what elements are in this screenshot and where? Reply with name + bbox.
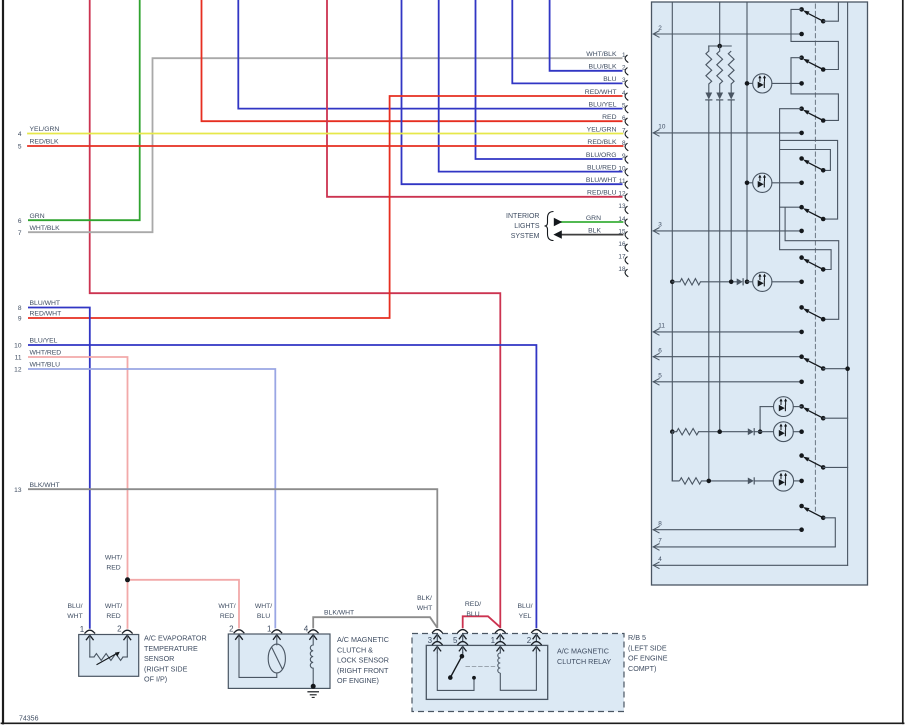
svg-text:BLK: BLK	[588, 227, 601, 234]
dashed mechanical link line	[814, 4, 816, 511]
ground symbol	[308, 691, 318, 693]
connector pin 9 hook	[625, 156, 628, 164]
wire BLK interior lights (pin 15)	[560, 234, 623, 236]
junction WHT/RED	[125, 577, 130, 582]
svg-text:YEL/GRN: YEL/GRN	[587, 127, 617, 134]
svg-text:13: 13	[14, 487, 22, 494]
lock sensor pin 4 connector	[308, 630, 319, 633]
lock sensor coil to ground	[312, 668, 314, 685]
svg-text:BLU/RED: BLU/RED	[587, 164, 617, 171]
lock sensor wire pin2 to oval	[239, 673, 277, 677]
connector pin 10 hook	[625, 168, 628, 176]
svg-text:OF I/P): OF I/P)	[144, 675, 167, 684]
connector pin 13 hook	[625, 206, 628, 214]
svg-text:2: 2	[117, 625, 122, 634]
svg-text:2: 2	[229, 624, 234, 633]
panel pin 7 wire	[653, 546, 835, 548]
svg-text:WHT/BLU: WHT/BLU	[30, 362, 61, 369]
resistor R5 row	[670, 429, 675, 434]
switch SW5 outer bracket to SW7 arm	[785, 207, 839, 319]
svg-text:LOCK SENSOR: LOCK SENSOR	[337, 656, 389, 665]
svg-text:4: 4	[658, 556, 662, 563]
switch SW2	[799, 55, 804, 60]
wire BLU/BLK (to pin 2)	[550, 0, 623, 71]
svg-text:5: 5	[18, 144, 22, 151]
switch SW1	[799, 7, 804, 12]
lock sensor pin 1 connector	[271, 630, 282, 633]
svg-text:10: 10	[14, 343, 22, 350]
switch SW2 bottom contact to LED	[772, 82, 802, 84]
svg-text:6: 6	[658, 348, 662, 355]
svg-text:TEMPERATURE: TEMPERATURE	[144, 644, 198, 653]
svg-text:BLU: BLU	[603, 76, 616, 83]
chain tie to SW5 top contact	[780, 206, 802, 208]
svg-text:7: 7	[18, 230, 22, 237]
switch SW7	[799, 305, 804, 310]
svg-text:1: 1	[267, 624, 272, 633]
resistor R2 (panel)	[717, 51, 723, 84]
svg-text:BLU/BLK: BLU/BLK	[589, 64, 617, 71]
svg-text:18: 18	[618, 266, 626, 273]
svg-text:11: 11	[658, 323, 665, 330]
svg-text:YEL: YEL	[519, 613, 532, 620]
svg-text:RED/BLU: RED/BLU	[587, 190, 617, 197]
switch SW3	[799, 106, 804, 111]
panel pin 4 wire	[653, 564, 847, 566]
switch SW6	[799, 255, 804, 260]
svg-text:SENSOR: SENSOR	[144, 654, 174, 663]
diode D3	[728, 93, 735, 100]
svg-text:WHT/BLK: WHT/BLK	[30, 225, 61, 232]
relay switch arm	[450, 656, 462, 677]
switch SW1 arm output	[823, 2, 838, 21]
LED PH5 output	[793, 431, 801, 433]
LED optocoupler PH5	[774, 422, 794, 442]
switch SW11	[799, 504, 804, 509]
switch SW11 arm output to pin7	[823, 518, 835, 547]
svg-text:2: 2	[622, 65, 626, 72]
wire GRN (left row 6)	[28, 0, 140, 220]
svg-text:5: 5	[453, 636, 458, 645]
wire RED/WHT (row 9 to pin 4)	[28, 96, 623, 318]
svg-text:INTERIOR: INTERIOR	[506, 213, 539, 220]
connector pin 6 hook	[625, 118, 628, 126]
LED optocoupler PH2	[747, 182, 753, 184]
wire YEL/GRN (row 4 to pin 7)	[28, 133, 623, 135]
lock sensor pin 2 connector	[234, 630, 245, 633]
panel pin 7	[653, 544, 659, 551]
wire BLU/RED (to pin 10)	[439, 0, 623, 172]
svg-text:11: 11	[15, 355, 22, 362]
resistor group common feed	[719, 2, 721, 46]
relay pin 5 connector	[457, 630, 468, 633]
relay pin 1 connector	[495, 630, 506, 633]
svg-text:4: 4	[304, 624, 309, 633]
resistor R4 row	[670, 280, 675, 285]
diode D6	[748, 478, 754, 485]
svg-text:WHT/BLK: WHT/BLK	[586, 51, 617, 58]
svg-text:SYSTEM: SYSTEM	[511, 233, 540, 240]
relay coil to pin 2	[500, 653, 536, 691]
svg-text:BLU/WHT: BLU/WHT	[30, 300, 61, 307]
bus line A (x672)	[671, 2, 673, 481]
wire WHT/BLU (row 12 to lock sensor pin 1)	[28, 369, 275, 628]
svg-text:6: 6	[18, 218, 22, 225]
interior lights brace	[545, 212, 554, 241]
chain branch to SW4 arm	[780, 150, 831, 171]
relay coil	[499, 652, 501, 655]
wire WHT/RED branch to lock sensor	[128, 580, 240, 629]
page right border	[902, 0, 904, 723]
svg-text:WHT/: WHT/	[105, 555, 122, 562]
svg-text:BLU/YEL: BLU/YEL	[589, 101, 617, 108]
panel pin 5	[653, 378, 659, 385]
svg-text:GRN: GRN	[30, 213, 45, 220]
wire BLU/ORG (to pin 9)	[476, 0, 623, 159]
svg-text:BLU/YEL: BLU/YEL	[30, 338, 58, 345]
svg-text:LIGHTS: LIGHTS	[514, 223, 540, 230]
svg-text:A/C MAGNETIC: A/C MAGNETIC	[337, 635, 389, 644]
svg-text:8: 8	[18, 305, 22, 312]
wire GRN interior lights (pin 14)	[560, 221, 623, 223]
svg-text:CLUTCH RELAY: CLUTCH RELAY	[557, 657, 611, 666]
svg-text:(LEFT SIDE: (LEFT SIDE	[628, 643, 667, 652]
svg-text:9: 9	[622, 153, 626, 160]
svg-text:10: 10	[658, 124, 666, 131]
switch SW4 bottom contact to LED	[772, 182, 802, 184]
connector pin 7 hook	[625, 131, 628, 139]
diode D1	[705, 93, 712, 100]
evaporator sensor pin 2 connector	[122, 630, 133, 633]
A/C magnetic clutch relay inner box	[426, 645, 547, 699]
relay pin 5 to switch arm	[462, 653, 464, 656]
switch SW9	[799, 404, 804, 409]
svg-text:OF ENGINE): OF ENGINE)	[337, 676, 379, 685]
switch SW9 arm to bus B	[823, 417, 847, 419]
resistor R3 (panel)	[728, 51, 734, 84]
A/C evaporator temperature sensor box	[79, 635, 139, 677]
wire WHT/RED (row 11)	[28, 357, 128, 629]
diode D2	[716, 93, 723, 100]
wire BLU/YEL (row 10 to relay pin 2)	[28, 345, 536, 628]
svg-text:4: 4	[622, 90, 626, 97]
LED optocoupler PH4	[774, 397, 794, 417]
svg-text:3: 3	[622, 77, 626, 84]
lock sensor coil	[310, 645, 313, 668]
svg-text:2: 2	[527, 636, 532, 645]
page bottom border	[2, 722, 904, 724]
thermistor arrow	[97, 653, 118, 665]
panel pin 3	[653, 228, 659, 235]
connector pin 4 hook	[625, 93, 628, 101]
connector pin 5 hook	[625, 105, 628, 113]
svg-text:WHT/: WHT/	[105, 603, 122, 610]
relay pin 3 path to contact	[437, 653, 474, 691]
wire BLU (to pin 3)	[512, 0, 622, 83]
thermistor	[90, 656, 94, 658]
svg-text:WHT: WHT	[67, 613, 82, 620]
svg-text:WHT: WHT	[417, 605, 432, 612]
svg-text:6: 6	[622, 115, 626, 122]
svg-text:(RIGHT SIDE: (RIGHT SIDE	[144, 664, 188, 673]
panel pin 3 wire	[653, 230, 801, 232]
connector pin 8 hook	[625, 143, 628, 151]
svg-text:BLU: BLU	[257, 613, 270, 620]
svg-text:BLU/WHT: BLU/WHT	[586, 177, 617, 184]
LED PH6 output	[794, 480, 802, 482]
connector pin 12 hook	[625, 194, 628, 202]
svg-text:YEL/GRN: YEL/GRN	[30, 126, 60, 133]
connector pin 18 hook	[625, 269, 628, 277]
chain branch to SW5 arm	[780, 140, 838, 219]
wire BLU/WHT (to pin 11)	[402, 0, 623, 184]
interior lights arrow out (GRN)	[554, 218, 562, 226]
svg-text:8: 8	[658, 521, 662, 528]
svg-text:A/C EVAPORATOR: A/C EVAPORATOR	[144, 634, 207, 643]
bus line F (x747)	[746, 2, 748, 282]
svg-text:BLK/: BLK/	[417, 595, 432, 602]
A/C magnetic clutch and lock sensor box	[228, 634, 330, 688]
svg-text:A/C MAGNETIC: A/C MAGNETIC	[557, 647, 609, 656]
svg-text:RED/: RED/	[465, 601, 481, 608]
svg-text:WHT/RED: WHT/RED	[30, 350, 62, 357]
wire RED/BLU relay branch	[463, 616, 501, 628]
wire RED (to pin 6)	[202, 0, 623, 121]
panel pin 10 wire	[653, 132, 801, 134]
panel pin 8 wire	[653, 529, 801, 531]
LED optocoupler PH1	[747, 82, 753, 84]
lock sensor oval	[268, 644, 285, 673]
svg-text:1: 1	[622, 52, 626, 59]
connector pin 16 hook	[625, 244, 628, 252]
wire RED/BLU (to pin 12)	[327, 0, 623, 197]
bus line D (x720)	[719, 100, 721, 431]
svg-text:12: 12	[14, 367, 22, 374]
svg-text:RED: RED	[602, 114, 616, 121]
svg-text:RED/WHT: RED/WHT	[30, 311, 62, 318]
panel pin 8	[653, 526, 659, 533]
svg-text:5: 5	[622, 102, 626, 109]
switch SW4	[799, 156, 804, 161]
resistor R1 (panel)	[706, 51, 712, 84]
panel pin 6 wire	[653, 356, 801, 358]
svg-text:1: 1	[80, 625, 85, 634]
wire BLU/WHT (row 8)	[28, 308, 90, 629]
connector pin 3 hook	[625, 80, 628, 88]
connector pin 14 hook	[625, 219, 628, 227]
diode D5	[748, 428, 754, 435]
switch SW10	[799, 453, 804, 458]
svg-text:13: 13	[618, 203, 626, 210]
panel pin 2 wire	[653, 33, 801, 35]
svg-text:3: 3	[658, 222, 662, 229]
connector pin 2 hook	[625, 68, 628, 76]
relay pin 3 connector	[432, 630, 443, 633]
svg-text:OF ENGINE: OF ENGINE	[628, 654, 668, 663]
svg-text:4: 4	[18, 131, 22, 138]
svg-text:BLU/: BLU/	[67, 603, 82, 610]
switch SW8	[799, 354, 804, 359]
switch SW5	[799, 205, 804, 210]
interior lights arrow in (BLK)	[553, 230, 561, 238]
svg-text:GRN: GRN	[586, 215, 601, 222]
svg-text:WHT/: WHT/	[218, 603, 235, 610]
svg-text:RED/BLK: RED/BLK	[30, 139, 60, 146]
svg-text:BLK/WHT: BLK/WHT	[30, 482, 60, 489]
connector pin 11 hook	[625, 181, 628, 189]
LED PH4 wiring	[760, 406, 773, 408]
svg-text:17: 17	[618, 254, 626, 261]
diode D4	[737, 278, 743, 285]
relay pin 2 connector	[531, 630, 542, 633]
connector pin 1 hook	[625, 55, 628, 63]
evaporator sensor pin 1 connector	[84, 630, 95, 633]
wire BLU/YEL (to pin 5)	[238, 0, 622, 109]
resistor R6 row	[672, 432, 679, 481]
wire BLK/WHT lock sensor pin 4 branch	[313, 617, 437, 628]
svg-text:7: 7	[658, 538, 662, 545]
svg-text:74356: 74356	[19, 716, 39, 723]
panel pin 2	[653, 31, 659, 38]
svg-text:9: 9	[18, 316, 22, 323]
svg-text:16: 16	[618, 241, 626, 248]
wire WHT/BLK (left row 7 to pin 1)	[28, 58, 623, 232]
relay block R/B 5 dashed box	[412, 634, 624, 712]
svg-text:BLU/: BLU/	[517, 603, 532, 610]
svg-text:3: 3	[428, 636, 433, 645]
svg-text:BLU: BLU	[466, 611, 479, 618]
svg-text:2: 2	[658, 25, 662, 32]
switch SW1 chain bracket	[791, 9, 838, 69]
svg-text:1: 1	[491, 636, 496, 645]
panel pin 10	[653, 130, 659, 137]
LED optocoupler PH3	[747, 281, 753, 283]
svg-text:RED: RED	[220, 613, 234, 620]
svg-text:5: 5	[658, 373, 662, 380]
panel pin 4	[653, 562, 659, 569]
bus line C (x709)	[708, 100, 710, 481]
switch SW8 arm to bus B	[823, 368, 847, 370]
panel pin 11 wire	[653, 331, 801, 333]
svg-text:WHT/: WHT/	[255, 603, 272, 610]
svg-text:RED: RED	[106, 565, 120, 572]
wire RED/BLU main (crimson)	[90, 0, 501, 628]
panel pin 5 wire	[653, 381, 801, 383]
svg-text:BLK/WHT: BLK/WHT	[324, 609, 354, 616]
relay link dashed	[466, 666, 495, 668]
svg-text:R/B 5: R/B 5	[628, 633, 646, 642]
svg-text:(RIGHT FRONT: (RIGHT FRONT	[337, 666, 389, 675]
wire RED/BLK (row 5 to pin 8)	[28, 145, 623, 147]
svg-text:BLU/ORG: BLU/ORG	[586, 152, 617, 159]
svg-text:COMPT): COMPT)	[628, 664, 656, 673]
connector pin 15 hook	[625, 231, 628, 239]
svg-text:CLUTCH &: CLUTCH &	[337, 645, 373, 654]
switch SW2 chain bracket	[791, 58, 838, 121]
page left border	[2, 0, 4, 723]
switch SW10 arm to bus B	[823, 466, 847, 468]
svg-text:RED: RED	[106, 613, 120, 620]
panel pin 11	[653, 329, 659, 336]
junction block panel	[652, 2, 868, 585]
lock sensor oval slash	[272, 648, 283, 670]
LED optocoupler PH6	[773, 471, 793, 491]
panel pin 6	[653, 353, 659, 360]
switch SW3 chain trunk	[780, 109, 832, 270]
connector pin 17 hook	[625, 257, 628, 265]
LED PH3 output to SW6	[772, 281, 802, 283]
bus line B (x847)	[847, 2, 849, 565]
bus line E (x731)	[730, 100, 732, 281]
svg-text:RED/WHT: RED/WHT	[585, 89, 617, 96]
wire BLK/WHT (row 13 to relay pin 3)	[28, 489, 437, 628]
